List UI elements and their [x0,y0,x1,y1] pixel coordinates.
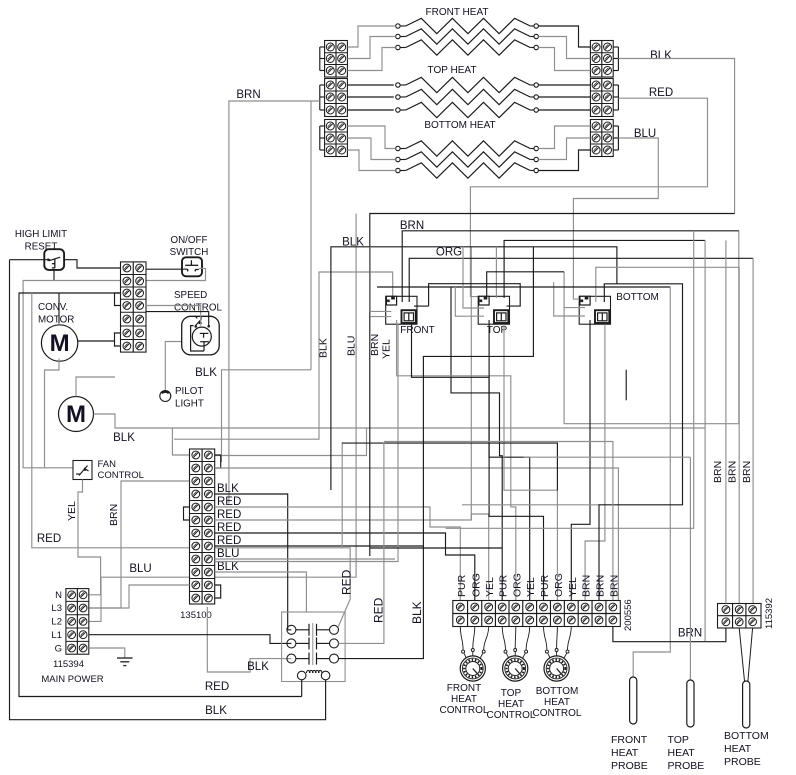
label BLU row9 [217,548,239,560]
svg-text:SPEED: SPEED [174,290,207,301]
svg-text:BRN: BRN [712,461,724,483]
wire high limit bottom pin [53,270,55,281]
label 115394 [53,659,84,670]
wire y443 long [342,443,557,490]
wire stair to col4 [451,287,502,601]
svg-text:YEL: YEL [525,577,537,597]
contactor poles [287,624,339,665]
svg-text:CONTROL: CONTROL [98,470,144,481]
label YEL mid vertical [381,339,393,359]
bottom heat control R3 [544,649,569,682]
wire TOP pin4 to col8 [504,324,557,600]
svg-text:PUR: PUR [456,574,468,597]
wire row6 RED to col3 [215,514,489,601]
label RED row7 [217,522,241,534]
fan control box [73,461,92,480]
wire BRN vertical [229,101,320,504]
wire y456 elbow [215,428,367,456]
wire on/off return left segment [23,281,120,468]
label BOTTOM HEAT [424,120,495,131]
svg-text:YEL: YEL [66,501,78,521]
svg-text:MAIN POWER: MAIN POWER [41,674,103,685]
svg-text:PILOT: PILOT [175,386,203,397]
ground symbol [117,658,133,666]
right block bus group3 [617,126,619,150]
svg-text:BOTTOM: BOTTOM [724,730,769,742]
svg-text:RED: RED [205,681,229,693]
wire FRONT pin3 to col5 [397,320,516,601]
label YEL vertical [66,501,78,521]
front heat control R1 [460,649,485,682]
wire x705 drop [704,240,706,641]
wire YEL mid vertical [215,324,398,561]
svg-text:HIGH LIMIT: HIGH LIMIT [15,229,67,240]
bottom dial leads [544,627,572,651]
wire BOTTOM pin3 to col9 [571,320,590,601]
wire front heater 1 right [538,26,590,47]
svg-text:CONTROL: CONTROL [440,705,489,716]
label TOP [487,325,508,336]
contactor box outline [282,612,346,682]
label BLK vert contactor [410,601,424,624]
wire speed control feed gray [146,306,201,326]
svg-text:ORG: ORG [511,573,523,597]
bottom heat element 2 [396,152,539,167]
wire relay BOTTOM left 2 [554,282,585,316]
svg-text:FRONT: FRONT [400,325,434,336]
left block bus group2 [319,85,321,110]
svg-text:RED: RED [649,87,673,99]
on/off switch S2 [182,257,202,276]
pilot light [160,391,171,402]
label FRONT HEAT [426,7,489,18]
svg-text:YEL: YEL [567,577,579,597]
right heater terminal block group 2 [590,79,613,117]
svg-text:BOTTOM HEAT: BOTTOM HEAT [424,120,495,131]
relay K2 TOP [478,296,509,324]
label TOP HEAT CONTROL [487,688,536,721]
label FRONT [400,325,434,336]
wire BRN right 3 [752,258,754,603]
svg-text:M: M [66,401,86,428]
label FRONT HEAT PROBE [611,734,648,772]
high limit reset switch S1 [44,249,64,270]
label BLU left [129,563,151,575]
svg-text:BRN: BRN [108,504,120,526]
svg-text:ON/OFF: ON/OFF [170,235,207,246]
wire strip bottom to contactor row3 [207,607,291,672]
wire bottom heater 2 left [347,138,395,160]
bottom heat element 1 [396,141,539,156]
svg-text:TOP: TOP [668,734,689,746]
wire x471 upper [470,247,472,520]
wire row2 long [215,468,619,601]
label RED row5 [217,496,241,508]
wire front heater 1 left [347,26,395,47]
wire row8 RED to contactor BLK vert [215,545,424,547]
label BLK row4 [217,483,239,495]
label CONV. MOTOR [38,302,74,326]
left block bus group1 [319,47,321,71]
label BLU mid vertical [346,336,358,356]
wire RED drop from row3 [32,293,350,627]
label TOP HEAT PROBE [668,734,705,772]
svg-text:HEAT: HEAT [451,694,477,705]
svg-text:BRN: BRN [608,575,620,597]
svg-text:BRN: BRN [741,461,753,483]
wire TOP pin3 to col7 [489,320,543,601]
label RED top right [649,87,673,99]
wire BLK mid horizontal [331,247,617,490]
label RED row6 [217,509,241,521]
svg-text:FRONT: FRONT [611,734,648,746]
wire M2 long black horizontal [94,414,706,428]
front heat element 1 [396,18,539,33]
label BRN mid vertical [369,334,381,356]
left block bus group3 [319,126,321,150]
wire BLU mid [89,214,356,622]
wire TOP icon feed 2 [495,247,497,298]
label BLK contactor left [247,661,269,673]
svg-text:RED: RED [217,535,241,547]
conv motor M1 [41,325,77,361]
contactor actuator [312,623,314,665]
wire row10 BLK [215,572,307,612]
svg-text:PUR: PUR [539,574,551,597]
svg-text:M: M [50,330,70,357]
wire bottom heater 2 right [538,138,590,160]
label BOTTOM [616,292,659,303]
label G [55,644,62,655]
wire bottom heater 3 left [347,150,395,171]
svg-text:L1: L1 [51,630,62,641]
wire y287 long [377,286,670,288]
svg-text:PROBE: PROBE [724,756,761,768]
svg-text:RED: RED [217,496,241,508]
front heat element 2 [396,29,539,44]
wire TOP probe drop [689,457,691,680]
wire on/off return [146,268,206,280]
main power terminal block 115394 [66,589,89,655]
svg-text:HEAT: HEAT [668,747,696,759]
wire strip row3 left [19,293,302,697]
label BLK mid [342,237,364,249]
bracket 135100 left rows5-6 [184,507,190,520]
wire stub x626 [625,370,627,401]
label MAIN POWER [41,674,103,685]
wire BRN mid [402,231,739,302]
label BOTTOM HEAT PROBE [724,730,769,768]
svg-text:CONTROL: CONTROL [533,708,582,719]
svg-text:ORG: ORG [470,573,482,597]
svg-text:BLK: BLK [205,705,227,717]
top heat element 2 [396,89,539,104]
svg-text:RED: RED [372,597,386,623]
wire relay FRONT right pin [414,284,520,306]
contactor coil [297,670,330,679]
label 115392 [764,598,775,629]
front dial leads [460,627,488,651]
svg-text:BRN: BRN [727,461,739,483]
svg-text:N: N [55,590,62,601]
wire pilot light up [165,342,183,391]
svg-text:BLU: BLU [129,563,151,575]
svg-text:RED: RED [217,522,241,534]
wire BOTTOM pin4 to col10 [585,324,605,600]
wire relay TOP left [463,247,484,308]
front heat probe [630,677,637,724]
wire front probe feed [633,287,670,677]
label 135100 [180,610,212,621]
svg-text:RED: RED [37,533,61,545]
label TOP HEAT [428,65,477,76]
wire M2 top [76,377,115,397]
wire front heater 2 right [538,37,590,59]
label RED vert contactor 1 [340,569,354,595]
label RED vert contactor 2 [372,597,386,623]
wire BRN bottom [613,627,726,642]
svg-text:ORG: ORG [436,247,462,259]
wire y240 TOP pin [504,240,705,298]
svg-text:YEL: YEL [381,339,393,359]
label 200556 [623,599,634,631]
wire top heater 2 left [347,96,393,98]
svg-text:FRONT HEAT: FRONT HEAT [426,7,489,18]
wire strip135100 row1 feed [172,428,189,455]
wire bottom heater 3 right [538,150,590,171]
wire BRN mid lower [370,547,502,549]
relay K1 FRONT [386,296,417,324]
gray web y439 [174,272,393,439]
top dial leads [502,627,530,651]
svg-text:HEAT: HEAT [544,697,570,708]
right block bus group2 [617,85,619,110]
svg-text:BRN: BRN [369,334,381,356]
svg-text:L2: L2 [51,617,62,628]
wire front heater 2 left [347,37,395,59]
label BLK under M2 [113,432,135,444]
label L1 [51,630,62,641]
wire y504 extension [462,504,599,506]
wire top heater 1 right [538,84,590,86]
wire fan to N (YEL) [78,480,101,595]
wire M1 bottom [45,359,60,468]
wire top heater 1 left [347,84,393,86]
svg-text:RED: RED [217,509,241,521]
wire row11 from L3 [89,585,190,608]
svg-text:CONV.: CONV. [38,302,68,313]
svg-text:CONTROL: CONTROL [487,710,536,721]
wire high limit to strip row1 [64,260,120,268]
speed control box [182,316,220,355]
relay K3 BOTTOM [579,296,610,324]
wire BLK strip row1 up [221,370,311,462]
svg-text:HEAT: HEAT [724,743,752,755]
wire relay TOP left 2 [455,287,484,316]
label SPEED CONTROL [174,290,222,314]
svg-text:BLK: BLK [113,432,135,444]
top heat control R2 [503,649,528,682]
wire row4 BLK to contactor [215,494,292,630]
svg-text:HEAT: HEAT [611,747,639,759]
label L2 [51,617,62,628]
wire BLU from right block [573,138,658,299]
right heater terminal block group 3 [590,120,613,157]
label BLK above M2 [195,367,217,379]
wire strip row1 to on/off [146,268,188,270]
wire x693 drop [446,231,694,529]
wire mid y213 [370,214,735,557]
bracket 135100 right rows1-2 [215,455,221,468]
label BOTTOM HEAT CONTROL [533,686,582,719]
wire RED from right block [470,98,707,296]
wire M1 top [58,293,60,324]
svg-text:PROBE: PROBE [668,760,705,772]
wire BLK from right block [618,59,734,214]
terminal strip 115392 [718,604,762,629]
svg-text:BLU: BLU [346,336,358,356]
svg-text:BLK: BLK [410,601,424,624]
wire speed control feed black [146,312,209,326]
label BRN top left [236,89,260,101]
svg-text:BRN: BRN [581,575,593,597]
label BLK mid vertical [318,338,330,358]
wire bottom heater 1 right [538,126,590,149]
svg-text:TOP: TOP [501,688,522,699]
wire top heater 3 left [347,109,393,111]
svg-text:RED: RED [340,569,354,595]
wire relay FRONT left 2 [370,316,392,318]
svg-text:BLK: BLK [247,661,269,673]
left block bus stubs [320,47,325,150]
wire high limit left [10,259,48,261]
svg-text:ORG: ORG [553,573,565,597]
wire y441 to col12 [384,442,613,601]
wire L1 to contactor [89,635,292,644]
svg-text:PUR: PUR [498,574,510,597]
svg-text:FRONT: FRONT [447,683,481,694]
wire relay BOTTOM left [564,307,585,309]
top heat element 1 [396,77,539,92]
bottom heat probe [743,681,750,728]
top heat element 3 [396,102,539,117]
svg-text:BRN: BRN [400,220,424,232]
right block bus group1 [617,47,619,71]
label FAN CONTROL [98,459,144,481]
motor M2 [59,397,94,432]
wire BRN to L3 [89,481,197,608]
wire front heater 3 right [538,48,590,71]
left heater terminal block group 2 [325,79,348,117]
svg-text:BLK: BLK [217,561,239,573]
wire x342 vertical [341,442,343,548]
top heat probe [687,680,694,727]
svg-text:YEL: YEL [484,577,496,597]
wire ORG mid [409,258,753,302]
svg-text:FAN: FAN [98,459,117,470]
terminal strip 135100 [190,449,215,604]
svg-text:BOTTOM: BOTTOM [536,686,579,697]
labels 200556 columns [456,573,621,597]
bracket 135100 right rows11-12 [215,585,221,598]
wire coil right lead [10,260,326,720]
label L3 [51,603,62,614]
left heater terminal block group 1 [325,41,348,78]
label RED bottom [205,681,229,693]
right block bus stubs [613,47,618,150]
svg-text:BRN: BRN [236,89,260,101]
wire top heater 3 right [538,109,590,111]
right heater terminal block group 1 [590,41,613,78]
label BRN bottom [678,628,702,640]
wire row9 BLU [215,558,395,560]
terminal strip 200556 [453,601,621,627]
wire row7 RED long [215,533,475,601]
svg-text:G: G [55,644,62,655]
wire strip row5 to motor [77,340,115,342]
label ON/OFF SWITCH [170,235,209,258]
label BLK row10 [217,561,239,573]
wire BOTTOM box to col11 [599,284,683,601]
label N [55,590,62,601]
svg-text:BLK: BLK [217,483,239,495]
wire relay FRONT left [370,247,391,312]
label BLU top right [634,128,656,140]
label BRN vertical [108,504,120,526]
wire contactor right row3 stair [339,247,534,659]
label BLK top right [650,50,672,62]
svg-text:115392: 115392 [764,598,775,629]
svg-text:PROBE: PROBE [611,760,648,772]
wire y457 horizontal [524,456,691,458]
wire G to ground [89,648,125,658]
wire TOP relay pinA drop [487,272,564,297]
wire FRONT pin4 to col6 [412,324,530,600]
wire top heater 2 right [538,96,590,98]
label ORG mid [436,247,462,259]
bottom probe leads [739,628,752,681]
bottom heat element 3 [396,163,539,178]
wire y268 TOP probe [596,267,739,603]
svg-text:BLK: BLK [650,50,672,62]
bracket strip left rows6-7 [115,333,121,346]
svg-text:BLU: BLU [217,548,239,560]
wire left bus drop [310,101,312,370]
svg-text:TOP HEAT: TOP HEAT [428,65,477,76]
label FRONT HEAT CONTROL [440,683,489,716]
label RED left [37,533,61,545]
svg-text:BRN: BRN [595,575,607,597]
labels BRN right vertical [712,461,753,483]
front heat element 3 [396,40,539,55]
svg-text:200556: 200556 [623,599,634,631]
label RED row8 [217,535,241,547]
label PILOT LIGHT [175,386,204,410]
wire front heater 3 left [347,48,395,71]
left heater terminal block group 3 [325,120,348,157]
svg-text:L3: L3 [51,603,62,614]
wire contactor right row2 [339,442,384,643]
svg-text:MOTOR: MOTOR [38,315,74,326]
wire coil left lead [301,680,303,697]
label HIGH LIMIT RESET [15,229,67,253]
wire y423 right [564,231,739,424]
svg-text:115394: 115394 [53,659,84,670]
wire BRN right 1 [725,240,727,603]
svg-text:LIGHT: LIGHT [175,399,204,410]
svg-text:BOTTOM: BOTTOM [616,292,659,303]
wire bottom heater 1 left [347,126,395,149]
